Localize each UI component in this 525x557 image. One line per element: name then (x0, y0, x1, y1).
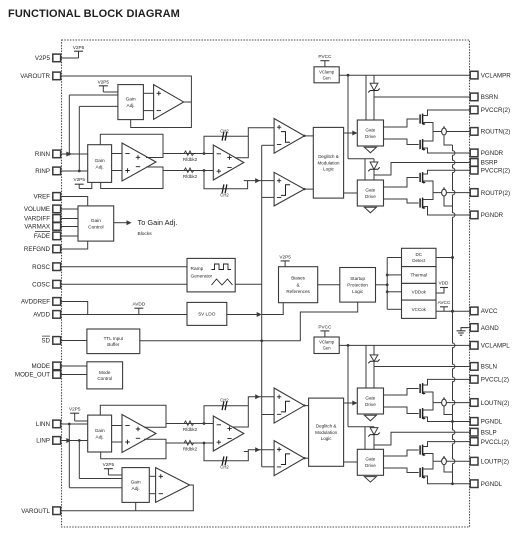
svg-text:&: & (297, 282, 300, 287)
transistor Q8 (low side LOUTP) (420, 467, 426, 479)
svg-text:MODE: MODE (31, 363, 50, 370)
wire AVCC (436, 310, 470, 312)
power tap V2P5 (gain adj L in) (69, 407, 81, 421)
svg-text:Logic: Logic (323, 166, 335, 171)
pin PVCCL(2) (right) (470, 376, 509, 384)
svg-text:PVCCR(2): PVCCR(2) (481, 168, 510, 175)
svg-text:DC: DC (416, 252, 423, 257)
node L cap fb top a (203, 422, 206, 425)
block VClamp Gen (R) (314, 67, 339, 83)
wire AGND (461, 327, 470, 329)
wire bootstrap L low (348, 426, 374, 428)
wire VAROUTR feedback loop (61, 76, 192, 128)
power tap PVCC (L) (318, 324, 332, 337)
wire bootstrap R low (348, 158, 374, 160)
pin VAROUTL (left) (21, 507, 60, 515)
svg-text:VCLAMPR: VCLAMPR (481, 72, 511, 79)
block Gain Adj (R input) (88, 145, 112, 183)
svg-text:BSLP: BSLP (481, 430, 497, 437)
pin BSRN (right) (470, 93, 498, 101)
wire C4 out (304, 457, 308, 459)
transistor Q2 (low side ROUTN) (420, 139, 426, 151)
svg-text:VARDIFF: VARDIFF (24, 216, 50, 223)
wire VCLAMPL (339, 344, 470, 346)
svg-text:V2P5: V2P5 (35, 55, 51, 62)
svg-text:REFGND: REFGND (24, 246, 51, 253)
wire VARDIFF (61, 218, 78, 220)
svg-text:V2P5: V2P5 (73, 177, 85, 182)
svg-text:RINN: RINN (35, 151, 50, 158)
svg-text:Mode: Mode (99, 370, 111, 375)
wire boot zener4 top (373, 426, 375, 429)
block Gate Drive 1 (357, 120, 383, 146)
pin ROSC (left) (32, 263, 60, 271)
wire LINN (61, 423, 88, 425)
wire boot to gd2 (364, 159, 366, 180)
svg-text:Ramp: Ramp (191, 266, 204, 272)
wire input tap vertical 2 (78, 106, 80, 171)
svg-text:Buffer: Buffer (107, 342, 120, 347)
wire biases to startup (318, 284, 340, 286)
svg-text:Blocks: Blocks (138, 231, 153, 237)
wire L int out bottom (244, 450, 274, 452)
wire LINP (61, 440, 88, 442)
svg-text:AVCC: AVCC (481, 308, 498, 315)
block 5V LDO (187, 302, 227, 325)
power tap VDD (436, 280, 449, 293)
wire R diff amp in bot (112, 170, 122, 172)
wire L signal top (144, 424, 213, 428)
pin PVCCL(2) (right) (470, 438, 509, 446)
wire input tap vertical 1 (68, 95, 70, 154)
node dc detect sense (451, 256, 454, 259)
pin SD (left) (41, 336, 60, 345)
wire zener3 to BSLN (373, 362, 375, 389)
block VCCok (402, 300, 437, 318)
block Biases & References (279, 267, 318, 303)
pin PGNDR (right) (470, 149, 503, 157)
wire VAROUTL loop (61, 485, 194, 511)
power tap AVCC (438, 300, 451, 311)
wire gain adj to op-amp - (L) (149, 493, 155, 495)
svg-text:VClamp: VClamp (319, 340, 335, 345)
power tap V2P5 (biases) (279, 254, 291, 266)
wire MODE_OUT (61, 374, 87, 376)
sensor (ROUTN) (442, 126, 453, 145)
svg-text:Rfdbk2: Rfdbk2 (183, 157, 198, 162)
wire LOUTN out (433, 402, 470, 404)
wire gain adj to op-amp + (143, 92, 153, 94)
svg-text:Adj.: Adj. (96, 164, 104, 170)
node monitor thermal (386, 274, 389, 277)
wire C1 out (304, 135, 313, 137)
capacitor CH2 (R top) (220, 128, 229, 140)
svg-text:RINP: RINP (35, 168, 50, 175)
wire V2P5 pin to rail tap (61, 57, 79, 59)
wire tap to gain adj L (75, 420, 88, 422)
ground (gate drive 4) (364, 477, 376, 483)
wire q2 drain to node (423, 132, 433, 142)
wire monitor stub dc detect (387, 257, 401, 259)
svg-text:V2P5: V2P5 (279, 254, 291, 259)
transistor Q5 (high side LOUTN) (420, 383, 426, 395)
block Deglitch & Modulation Logic (R) (313, 127, 343, 198)
wire mod logic L out 1 (344, 402, 358, 404)
pin AGND (right) (470, 324, 499, 332)
wire gain adj L input 2 (69, 487, 122, 489)
wire L fb loop bottom (101, 443, 166, 459)
op-amp A5 (L integrator) (213, 416, 244, 451)
pin MODE (left) (31, 362, 60, 370)
wire BSRP (374, 163, 470, 176)
wire vclampl to zener 3 (373, 345, 375, 355)
wire ramp to C1 - (262, 144, 274, 146)
wire to gain adj blocks (114, 222, 128, 224)
wire LOUTP out (433, 460, 470, 462)
node LINP tap (78, 439, 81, 442)
svg-text:PVCCL(2): PVCCL(2) (481, 439, 509, 446)
pin BSRP (right) (470, 159, 497, 167)
resistor Rfdbk2 (L top) (183, 421, 198, 432)
op-amp A1 (VAROUTR buffer) (154, 85, 184, 120)
block Thermal (402, 267, 437, 284)
comparator C4 (L bottom) (274, 441, 305, 476)
pin VCLAMPR (right) (470, 71, 511, 79)
wire q2 source to PGNDR (423, 148, 471, 153)
wire R fb loop bottom (101, 171, 163, 189)
wire SD (61, 340, 87, 342)
wire q4 source to PGNDR2 (423, 207, 471, 216)
op-amp A3 (R integrator) (213, 145, 244, 180)
wire R diff amp in top (112, 153, 122, 155)
pin LINP (left) (36, 437, 60, 445)
svg-text:Gain: Gain (95, 158, 105, 164)
pin LOUTP(2) (right) (470, 457, 509, 465)
wire C3 out (304, 405, 308, 407)
svg-text:ROSC: ROSC (32, 264, 50, 271)
svg-text:AVDD: AVDD (33, 312, 50, 319)
svg-text:Gen: Gen (323, 75, 332, 80)
svg-text:To Gain Adj.: To Gain Adj. (138, 218, 178, 227)
wire boot zener2 top (373, 159, 375, 162)
wire ROUTN out (433, 131, 470, 133)
svg-text:Gate: Gate (365, 457, 375, 462)
svg-text:TTL Input: TTL Input (104, 336, 124, 341)
resistor Rfdbk2 (R bottom) (183, 168, 198, 179)
svg-text:Gain: Gain (126, 97, 136, 103)
svg-text:Rfdbk2: Rfdbk2 (183, 446, 198, 451)
svg-text:BSRN: BSRN (481, 94, 498, 101)
svg-text:Control: Control (97, 376, 112, 381)
svg-text:Startup: Startup (350, 276, 365, 281)
wire ramp/reference bus (261, 145, 263, 467)
pin MODE_OUT (left) (15, 371, 61, 379)
svg-text:BSRP: BSRP (481, 160, 498, 167)
svg-text:VREF: VREF (33, 194, 50, 201)
transistor Q6 (low side LOUTN) (420, 408, 426, 420)
wire gain adj input 1 (69, 94, 118, 96)
pin AVDD (left) (33, 311, 60, 319)
wire gd3 gate low (384, 407, 419, 414)
zener diode Z3 (BSLN clamp) (368, 355, 379, 363)
zener diode Z4 (BSLP clamp) (368, 428, 379, 437)
svg-text:FADE: FADE (34, 233, 50, 240)
wire R signal top (146, 154, 213, 158)
pin VARDIFF (left) (24, 215, 61, 223)
block VDDok (402, 283, 437, 300)
svg-text:Gain: Gain (95, 428, 105, 434)
svg-text:Logic: Logic (352, 289, 364, 294)
arrow into gate drive 1 (352, 131, 357, 136)
svg-text:CH2: CH2 (220, 193, 229, 198)
wire L diff amp in top (112, 425, 122, 427)
wire R int out bottom (244, 180, 274, 182)
svg-text:Logic: Logic (321, 436, 333, 441)
pin PGNDL (right) (470, 480, 502, 488)
wire q7 source to node (423, 454, 433, 462)
block Gain Adj (L input) (88, 415, 112, 452)
wire ttl out to startup (140, 302, 358, 341)
wire vclampr drop 1 (347, 75, 349, 159)
wire op-amp A1 output (184, 101, 192, 103)
power tap AVDD (132, 302, 145, 315)
svg-text:ROUTP(2): ROUTP(2) (481, 190, 510, 197)
block Gate Drive 3 (357, 388, 383, 414)
wire zener2 to gd2 (373, 170, 375, 181)
svg-text:PGNDR: PGNDR (481, 212, 504, 219)
wire gain adj to op-amp + (L) (149, 475, 155, 477)
svg-text:CH2: CH2 (220, 398, 229, 403)
wire ldo out (227, 314, 259, 316)
wire q3 source to node (423, 181, 433, 193)
block Gain Adj (VAROUTL stage) (122, 468, 149, 503)
svg-text:Adj.: Adj. (132, 486, 140, 492)
pin VCLAMPL (right) (470, 342, 510, 350)
op-amp A2 (R diff amp) (122, 143, 156, 181)
wire boot to gd4 (364, 427, 366, 450)
svg-text:Gain: Gain (131, 479, 141, 485)
wire q6 drain to node (423, 403, 433, 410)
pin COSC (left) (32, 280, 60, 288)
wire q4 drain to node (423, 193, 433, 200)
wire C2 out (304, 188, 313, 190)
resistor Rfdbk2 (R top) (183, 151, 198, 162)
arrow to gain adj blocks (127, 220, 132, 225)
block Mode Control (87, 362, 123, 389)
block VClamp Gen (L) (314, 337, 339, 354)
wire gd1 gate low (384, 139, 419, 145)
svg-text:VCLAMPL: VCLAMPL (481, 343, 510, 350)
pin VARMAX (left) (24, 223, 60, 231)
block Startup Protection Logic (340, 268, 376, 303)
square wave glyph (212, 264, 232, 270)
pin PGNDR (right) (470, 211, 503, 219)
node bus ttl (260, 339, 263, 342)
wire q8 source to PGNDL2 (423, 476, 471, 484)
pin PVCCR(2) (right) (470, 106, 510, 114)
power tap V2P5 (gain adj L out) (103, 462, 115, 475)
wire R signal bottom (146, 167, 213, 171)
node vclampr a (347, 74, 350, 77)
svg-text:CH2: CH2 (220, 128, 229, 133)
svg-text:VCCok: VCCok (412, 307, 427, 312)
svg-text:Generator: Generator (191, 274, 213, 280)
sensor (LOUTP) (442, 456, 453, 472)
wire RINN (61, 153, 88, 155)
transistor Q4 (low side ROUTP) (420, 198, 426, 210)
node avcc bus (451, 310, 454, 313)
svg-text:Thermal: Thermal (410, 273, 427, 278)
svg-text:AVDD: AVDD (132, 302, 145, 307)
wire REFGND (61, 241, 88, 249)
wire q1 drain to PVCCR (423, 110, 471, 116)
svg-text:VOLUME: VOLUME (24, 206, 50, 213)
pin AVCC (right) (470, 307, 498, 315)
svg-text:VDD: VDD (439, 280, 450, 285)
wire gd2 gate high (384, 178, 419, 188)
wire VARMAX (61, 226, 78, 228)
wire L cap fb bottom (204, 443, 248, 461)
pin PVCCR(2) (right) (470, 166, 510, 174)
svg-text:Detect: Detect (412, 258, 426, 263)
svg-text:VDDok: VDDok (412, 289, 427, 294)
svg-text:VClamp: VClamp (319, 69, 335, 74)
resistor Rfdbk2 (L bottom) (183, 440, 198, 451)
svg-text:LINN: LINN (36, 421, 50, 428)
pin LOUTN(2) (right) (470, 399, 509, 407)
wire R cap fb bottom (204, 171, 248, 189)
wire sense bus vertical (451, 145, 455, 485)
svg-text:Drive: Drive (365, 134, 376, 139)
svg-text:LOUTN(2): LOUTN(2) (481, 400, 510, 407)
wire q1 source to node (423, 123, 433, 132)
block Ramp Generator (187, 258, 235, 292)
svg-text:Gate: Gate (365, 395, 375, 400)
block Gate Drive 2 (357, 180, 383, 206)
svg-text:PVCCL(2): PVCCL(2) (481, 377, 509, 384)
wire L fb loop top (100, 405, 166, 423)
wire zener1 to BSRN (373, 91, 375, 120)
wire vclampr drop 2 (365, 75, 367, 120)
comparator C3 (L top) (274, 388, 305, 423)
op-amp A4 (L diff amp) (122, 415, 156, 453)
wire L diff amp in bot (112, 441, 122, 443)
capacitor CH2 (L top) (220, 398, 229, 411)
arrow on LINP wire (66, 438, 71, 443)
wire gd4 gate low (384, 468, 419, 473)
wire tap into gain adj (103, 91, 118, 93)
svg-text:V2P5: V2P5 (103, 462, 115, 467)
wire R int out top (235, 128, 274, 158)
wire gain adj input 2 (79, 105, 118, 107)
wire VOLUME (61, 208, 78, 210)
svg-text:Drive: Drive (365, 463, 376, 468)
wire vclampl drop 1 (347, 345, 349, 426)
svg-text:Modulation: Modulation (315, 430, 338, 435)
pin VREF (left) (33, 193, 60, 201)
pin AVDDREF (left) (21, 298, 61, 306)
svg-text:Control: Control (88, 224, 103, 230)
wire bus to C3 - (262, 414, 274, 416)
sensor (ROUTP) (442, 187, 453, 206)
wire BSRN (374, 96, 470, 98)
wire BSLN (374, 366, 470, 368)
svg-text:PVCC: PVCC (318, 324, 332, 329)
svg-text:PGNDL: PGNDL (481, 419, 503, 426)
svg-text:LINP: LINP (36, 438, 50, 445)
svg-text:VAROUTL: VAROUTL (21, 508, 50, 515)
power tap V2P5 (pin) (73, 45, 85, 58)
wire AVDD (61, 314, 187, 316)
wire monitor bus vertical (386, 258, 388, 310)
wire tap into gain adj L out (108, 474, 122, 476)
wire gd1 gate high (384, 119, 419, 127)
svg-text:AGND: AGND (481, 325, 499, 332)
svg-text:Drive: Drive (365, 194, 376, 199)
wire ramp out (235, 283, 262, 285)
transistor Q3 (high side ROUTP) (420, 172, 426, 184)
wire R cap fb top (204, 136, 248, 153)
comparator C2 (R bottom) (274, 172, 305, 206)
svg-text:V2P5: V2P5 (98, 79, 110, 84)
svg-text:Biases: Biases (291, 276, 305, 281)
pin VAROUTR (left) (20, 72, 60, 80)
svg-text:LOUTP(2): LOUTP(2) (481, 459, 509, 466)
wire gd4 gate high (384, 450, 419, 456)
pin BSLN (right) (470, 363, 497, 371)
pin V2P5 (left) (35, 54, 61, 62)
comparator C1 (R top) (274, 119, 305, 154)
transistor Q1 (high side ROUTN) (420, 114, 426, 126)
svg-text:PGNDR: PGNDR (481, 150, 504, 157)
wire ROSC (61, 266, 187, 268)
pin RINN (left) (35, 150, 61, 158)
svg-text:ROUTN(2): ROUTN(2) (481, 129, 511, 136)
chip boundary (dashed) (62, 40, 470, 527)
wire q3 drain to PVCCR (423, 170, 471, 174)
svg-text:CH2: CH2 (220, 465, 229, 470)
node LINN tap (68, 423, 71, 426)
wire monitor stub vddok (387, 291, 401, 293)
sensor (LOUTN) (442, 397, 453, 414)
node L cap fb bottom a (203, 442, 206, 445)
pin FADE (left) (34, 232, 61, 241)
svg-text:Adj.: Adj. (96, 434, 104, 440)
wire q6 source to PGNDL (423, 417, 471, 422)
wire monitor stub vccok (387, 308, 401, 310)
block Deglitch & Modulation Logic (L) (309, 398, 344, 466)
wire vclampr to zener 1 (373, 75, 375, 83)
svg-text:FUNCTIONAL BLOCK DIAGRAM: FUNCTIONAL BLOCK DIAGRAM (8, 8, 180, 20)
wire gd2 gate low (384, 199, 419, 203)
node RINP tap (78, 170, 81, 173)
svg-text:PVCCR(2): PVCCR(2) (481, 107, 510, 114)
wire q5 drain to PVCCL (423, 379, 471, 385)
node RINN tap (68, 153, 71, 156)
svg-text:V2P5: V2P5 (73, 45, 85, 50)
wire q8 drain to node (423, 461, 433, 469)
wire mod logic R out 1 (344, 132, 358, 134)
svg-text:MODE_OUT: MODE_OUT (15, 372, 50, 379)
arrow ldo out (257, 312, 262, 317)
ground (gate drive 2) (364, 207, 376, 213)
node R cap fb top a (203, 152, 206, 155)
wire mod logic L out 2 (344, 461, 358, 463)
pin VOLUME (left) (24, 205, 61, 213)
capacitor CH2 (L bottom) (220, 456, 229, 469)
pin LINN (left) (36, 420, 61, 428)
node monitor 284.8 (386, 283, 389, 286)
